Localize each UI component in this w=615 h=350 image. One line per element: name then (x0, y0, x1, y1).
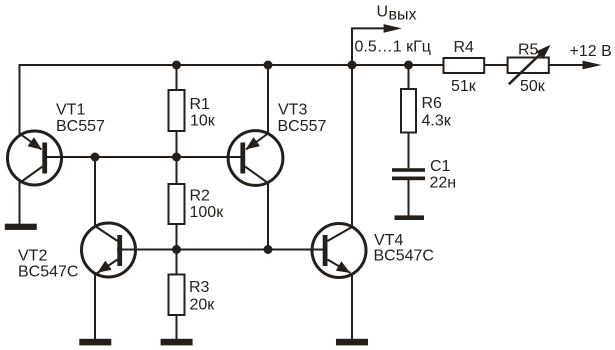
svg-text:+12 В: +12 В (570, 43, 612, 60)
wire R2 to row2 (176, 224, 178, 250)
node row1/R1R2 (172, 153, 181, 162)
wire R3 to ground (176, 315, 178, 340)
wire VT1 collector to ground (19, 182, 21, 225)
wire C1 to ground (408, 180, 410, 217)
ground (VT4) (336, 339, 368, 346)
wire VT4 emitter to ground (351, 274, 353, 341)
wire row2 to R3 (176, 250, 178, 275)
wire left drop to VT1 emitter (19, 64, 21, 134)
ground (C1) (395, 215, 425, 220)
wire VT2 emitter to ground (94, 274, 96, 341)
svg-text:R4: R4 (454, 39, 475, 56)
svg-text:BC557: BC557 (56, 118, 105, 135)
wire R6 to C1 (408, 133, 410, 169)
resistor R3 (169, 275, 185, 316)
svg-text:R3: R3 (189, 279, 210, 296)
svg-text:R1: R1 (190, 96, 211, 113)
svg-text:VT2: VT2 (18, 247, 47, 264)
wire R5 to +12V arrow (549, 64, 585, 66)
arrow +12V (583, 61, 602, 70)
wire rail to R6 (408, 65, 410, 89)
transistor VT1 (8, 131, 62, 185)
wire top rail (19, 64, 444, 66)
svg-text:0.5…1 кГц: 0.5…1 кГц (355, 39, 431, 56)
ground (R3) (161, 339, 193, 346)
wire base row 2 (117, 249, 325, 251)
wire rail to VT3 emitter (267, 65, 269, 134)
svg-text:вых: вых (389, 7, 417, 24)
resistor R4 (444, 58, 485, 73)
ground (VT2) (79, 339, 111, 346)
svg-text:BC547C: BC547C (18, 263, 78, 280)
svg-text:4.3к: 4.3к (422, 113, 452, 130)
svg-text:U: U (377, 3, 389, 20)
svg-text:50к: 50к (520, 78, 546, 95)
transistor VT3 (228, 131, 283, 186)
wire VT2 collector up (94, 157, 96, 227)
wire row1 to R2 (176, 157, 178, 184)
node row1/VT2 (91, 153, 100, 162)
wire base row 1 (44, 156, 242, 158)
arrow Uvyh output (384, 24, 402, 33)
wire VT3 collector to row2 (267, 182, 269, 250)
svg-text:10к: 10к (190, 113, 216, 130)
svg-text:20к: 20к (190, 297, 216, 314)
svg-text:R2: R2 (190, 187, 211, 204)
resistor R2 (169, 184, 185, 224)
capacitor C1 (392, 168, 425, 180)
node row2/R2R3 (172, 245, 181, 254)
resistor R5 (variable) (508, 45, 551, 84)
wire R1 to row1 (176, 131, 178, 157)
node rail/R6 (404, 61, 413, 70)
svg-text:C1: C1 (430, 158, 451, 175)
node row2/VT3 (264, 245, 273, 254)
ground (VT1) (5, 224, 37, 230)
resistor R6 (401, 89, 416, 133)
wire R4 to R5 (484, 64, 507, 66)
wire VT4 collector up (351, 65, 353, 227)
svg-text:22н: 22н (430, 175, 457, 192)
svg-text:VT1: VT1 (56, 102, 85, 119)
svg-text:51к: 51к (451, 78, 477, 95)
svg-text:R5: R5 (518, 41, 539, 58)
resistor R1 (169, 90, 185, 131)
svg-text:BC547C: BC547C (374, 248, 434, 265)
node rail/VT3 (264, 61, 273, 70)
svg-text:BC557: BC557 (278, 118, 327, 135)
node rail/VT4 output (348, 61, 357, 70)
transistor VT2 (82, 223, 136, 277)
svg-text:100к: 100к (190, 204, 225, 221)
transistor VT4 (312, 224, 366, 278)
wire Uvyh riser (352, 28, 385, 65)
svg-text:VT3: VT3 (278, 101, 307, 118)
node rail/R1 (172, 61, 181, 70)
wire rail to R1 (176, 65, 178, 90)
svg-text:R6: R6 (422, 95, 443, 112)
